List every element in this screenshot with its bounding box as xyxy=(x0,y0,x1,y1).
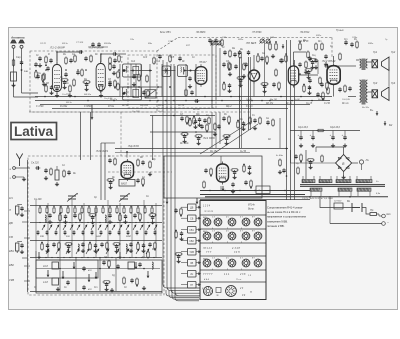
capacitor C12 IF xyxy=(132,74,135,79)
capacitor C41 xyxy=(203,118,206,123)
junction LV3 xyxy=(248,100,250,102)
wire T6 to Gr1 xyxy=(368,61,373,63)
svg-text:Rф: Rф xyxy=(152,158,156,161)
tuner LC cluster C108 xyxy=(137,243,140,251)
table row pin numbers xyxy=(212,217,255,230)
svg-text:Сф2 20,0: Сф2 20,0 xyxy=(330,126,341,129)
switch contact resistor R62 xyxy=(46,207,48,215)
wire КВ2 to bus xyxy=(181,240,188,242)
svg-text:Л1-2 6К9Р: Л1-2 6К9Р xyxy=(49,46,66,50)
ground af extra xyxy=(304,70,308,74)
svg-text:б: б xyxy=(227,228,228,230)
wire antenna column down xyxy=(27,160,29,292)
switch contact resistor R65 xyxy=(67,207,69,215)
capacitor C96 feed xyxy=(282,168,285,173)
tube L5 6A7 xyxy=(195,64,207,87)
capacitor C7 coupling xyxy=(78,50,83,53)
coil box Lg xyxy=(128,262,135,269)
resistor R63 xyxy=(137,159,140,167)
resistor R38 link xyxy=(117,83,120,91)
junction dots IF top xyxy=(132,70,134,72)
dashed box RF unit xyxy=(30,51,157,112)
tuner LC cluster C103 xyxy=(78,244,79,251)
wire L1 to L3 xyxy=(57,51,80,53)
capacitor C61 top row xyxy=(91,42,94,47)
capacitor C1 antenna xyxy=(20,60,23,65)
connector box СВ xyxy=(188,215,197,222)
coil L12 xyxy=(55,170,59,180)
capacitor C65 top xyxy=(234,64,237,69)
svg-text:3 3 П: 3 3 П xyxy=(234,252,240,254)
bold arrow contact 6 xyxy=(47,270,50,277)
wire lower tuner v3 xyxy=(75,258,77,291)
resistor R15 IF xyxy=(147,90,150,98)
capacitor C22 cluster xyxy=(222,62,225,67)
padder capacitor C97 xyxy=(136,230,139,235)
bold arrow tuner out 1 xyxy=(166,198,169,204)
padder capacitor C93 xyxy=(100,230,103,235)
svg-text:СВ: СВ xyxy=(190,218,194,221)
svg-text:Сം 3: Сം 3 xyxy=(246,105,253,108)
arrow ДВ to table xyxy=(196,206,201,208)
resistor R1 antenna xyxy=(12,59,15,67)
wire L12 cathode down xyxy=(333,87,335,97)
dashed connector RF to tuner xyxy=(120,112,122,156)
wire mid v5 xyxy=(215,112,217,148)
tuner LC cluster C79 xyxy=(59,214,62,222)
wire L3 plate bold xyxy=(100,54,102,64)
svg-text:R5 1к: R5 1к xyxy=(66,102,73,104)
wire RF down 1 xyxy=(80,112,82,160)
ground R7 xyxy=(68,93,72,97)
mains plug pin 2 xyxy=(382,222,386,226)
table row pin numbers xyxy=(212,231,255,244)
svg-text:УКВ: УКВ xyxy=(189,251,194,254)
switch contact resistor R72 xyxy=(116,207,118,215)
wire tuner row 3 xyxy=(30,240,162,242)
junction top 1 xyxy=(257,53,259,55)
wire T7 to Gr2 xyxy=(368,91,373,93)
ground grid divider xyxy=(271,54,275,58)
tuner LC cluster C106 xyxy=(113,243,121,246)
svg-text:Rс 3к: Rс 3к xyxy=(286,103,293,105)
resistor R58 between xyxy=(73,79,76,87)
ground lower tuner 2 xyxy=(110,288,114,292)
svg-text:П о н: П о н xyxy=(236,279,242,281)
capacitor C55 below L12 xyxy=(316,92,319,97)
wire mains top xyxy=(200,199,310,201)
bold arrow contact 7 xyxy=(73,262,76,269)
capacitor C33 top xyxy=(238,50,241,55)
wire lower tuner v5 xyxy=(115,258,117,291)
wire to tone xyxy=(329,65,340,67)
resistor R101 cluster xyxy=(103,281,111,284)
wire band stub 2 xyxy=(24,237,30,239)
wire lamp down xyxy=(361,164,363,170)
bridge rectifier V1 xyxy=(336,155,352,172)
dashed AF box right xyxy=(331,38,333,59)
wire heater 1 xyxy=(200,190,310,192)
capacitor C99 xyxy=(138,262,141,267)
wire L11 cathode xyxy=(220,186,222,191)
wire antenna 1 down xyxy=(13,48,15,97)
svg-text:Л9 6П14: Л9 6П14 xyxy=(299,31,310,34)
wire L12 plate up xyxy=(333,56,335,63)
resistor R70 cluster xyxy=(175,231,178,239)
svg-text:Сопротивления R41-4 указа-: Сопротивления R41-4 указа- xyxy=(267,206,303,210)
electrolytic capacitor C50 xyxy=(299,135,302,140)
capacitor C59 between xyxy=(76,70,79,75)
svg-text:8 9: 8 9 xyxy=(252,258,255,260)
wire mid v4 xyxy=(211,112,213,148)
junction lower tuner 1 xyxy=(59,268,61,270)
connector box УКВ xyxy=(188,249,197,256)
junction pillar 1 xyxy=(35,70,37,72)
svg-text:Сар: Сар xyxy=(16,56,21,59)
tuner LC cluster C84 xyxy=(133,213,136,218)
resistor R21 xyxy=(239,51,242,59)
wire terminal z xyxy=(15,176,24,178)
svg-text:Л3-4 6К9Р: Л3-4 6К9Р xyxy=(88,46,105,50)
tuned circuit ferrite 2 xyxy=(16,243,19,251)
capacitor C91 cluster xyxy=(204,168,207,173)
ground R65 xyxy=(148,172,152,176)
svg-text:7 7 7 7 7: 7 7 7 7 7 xyxy=(203,273,213,276)
tuner terminals xyxy=(13,167,16,170)
transformer winding W4 xyxy=(356,180,372,184)
IF transformer T2 xyxy=(162,66,171,77)
arrow AVC down xyxy=(282,44,285,49)
tube L10 6I1 xyxy=(121,159,133,181)
padder capacitor C91 xyxy=(82,230,85,235)
svg-text:Л1 Л2 Л3: Л1 Л2 Л3 xyxy=(203,211,214,213)
junction L10 xyxy=(126,151,128,153)
wire long vertical 5 xyxy=(264,40,266,96)
svg-text:Сз 50: Сз 50 xyxy=(324,103,331,105)
wire filter to transformer xyxy=(305,150,307,179)
wire to T6 xyxy=(356,59,360,61)
arrow СВ to table xyxy=(196,217,201,219)
svg-text:Сп 20: Сп 20 xyxy=(246,99,253,101)
wire IF lower xyxy=(120,86,162,88)
capacitor C49 af xyxy=(308,78,311,83)
wire terminal a xyxy=(15,167,30,169)
svg-text:6И1П: 6И1П xyxy=(121,182,127,185)
svg-text:в: в xyxy=(241,228,242,230)
switch contact resistor R73 xyxy=(123,207,125,215)
coil box L6-8 xyxy=(52,262,59,269)
trimmer capacitor T4 xyxy=(265,38,270,43)
ground R12 xyxy=(99,93,103,97)
dashed box IF unit xyxy=(128,55,216,108)
svg-text:+: + xyxy=(342,133,344,137)
ground R24 xyxy=(242,74,246,78)
wire feedback up xyxy=(317,60,319,74)
switch contact resistor R76 xyxy=(144,207,146,215)
capacitor C14 IF xyxy=(188,76,191,81)
capacitor C64 xyxy=(141,160,144,165)
arrow ГР to table xyxy=(196,284,201,286)
capacitor C98 padder xyxy=(82,285,85,290)
svg-text:Са 200: Са 200 xyxy=(34,199,42,201)
resistor R2 xyxy=(45,56,48,64)
tube L3 6K9 xyxy=(96,61,105,93)
resistor R102 xyxy=(123,277,126,285)
svg-text:Сп 30: Сп 30 xyxy=(178,105,185,107)
resistor R24 xyxy=(243,63,246,71)
svg-text:КВ2: КВ2 xyxy=(9,263,14,267)
wire distribution bold xyxy=(205,196,388,198)
ground C92 xyxy=(231,189,235,193)
table row pin numbers xyxy=(212,258,255,271)
svg-text:+: + xyxy=(310,133,312,137)
tuner LC cluster C81 xyxy=(89,214,97,217)
wire L9 plate right xyxy=(294,51,307,53)
junction top 2 xyxy=(285,53,287,55)
wire tuner feed 1 xyxy=(100,143,102,200)
wire mid v2 xyxy=(215,44,217,100)
svg-text:Л6 6Б8С: Л6 6Б8С xyxy=(195,31,206,34)
svg-text:Rк 56: Rк 56 xyxy=(122,105,129,107)
wire tone to T6 xyxy=(340,65,356,67)
svg-text:R 100к: R 100к xyxy=(60,106,68,108)
capacitor C104 xyxy=(116,264,119,269)
resistor R50 filter xyxy=(317,129,325,132)
capacitor C23 cluster xyxy=(260,56,263,61)
pilot lamp xyxy=(359,160,363,164)
svg-text:Сф 100: Сф 100 xyxy=(140,104,149,107)
capacitor C68 top xyxy=(324,54,327,59)
resistor R12 xyxy=(100,85,103,93)
resistor R13 IF xyxy=(138,74,141,82)
capacitor C5 cluster xyxy=(36,74,39,79)
wire tuner verticals xyxy=(35,200,37,258)
junction dist 1 xyxy=(309,196,311,198)
junction lower tuner 2 xyxy=(99,268,101,270)
wire ferrite 1 out xyxy=(22,221,28,223)
switch contact resistor R61 xyxy=(39,207,41,215)
resistor R42 xyxy=(208,117,211,125)
electrolytic capacitor C53 xyxy=(343,135,346,140)
resistor R11 cluster xyxy=(83,81,91,84)
wire feed down xyxy=(315,147,317,152)
electrolytic capacitor C51 xyxy=(311,135,314,140)
wire filter bus xyxy=(290,130,360,132)
tube L12 6P14 output xyxy=(327,63,340,87)
tuner LC cluster C109 xyxy=(148,242,151,247)
tuner LC cluster C82 xyxy=(105,215,106,222)
svg-text:4 5: 4 5 xyxy=(226,217,229,219)
ground arrow RF xyxy=(91,105,94,120)
svg-text:2. 3 4 П: 2. 3 4 П xyxy=(231,247,240,250)
ground mid strip xyxy=(253,126,257,130)
ground C12 xyxy=(132,82,136,86)
wire lower tuner v2 xyxy=(59,258,61,291)
svg-text:R32а: R32а xyxy=(368,43,374,45)
resistor R29 xyxy=(299,43,302,51)
wire IF 2 xyxy=(162,70,176,72)
resistor R55 pillar xyxy=(35,71,38,79)
wire tuner row 5 xyxy=(36,268,160,270)
svg-text:4 5: 4 5 xyxy=(226,258,229,260)
bold arrow contact 3 xyxy=(88,274,91,282)
resistor R37 link xyxy=(117,71,120,79)
switch contact resistor R71 xyxy=(109,207,111,215)
resistor R79 feed xyxy=(297,167,300,175)
switch contact arrows row 2 xyxy=(46,249,49,254)
svg-text:Гр1: Гр1 xyxy=(373,50,378,54)
wire tuner row 6 xyxy=(30,291,162,293)
resistor R10 xyxy=(118,55,121,63)
capacitor C11 top right xyxy=(112,52,117,55)
wire bus 2 xyxy=(35,100,330,102)
svg-text:Rф 2: Rф 2 xyxy=(226,105,232,108)
capacitor C56 xyxy=(348,86,351,91)
ground arrow L11 cathode xyxy=(222,186,225,191)
junction LV1 xyxy=(239,96,241,98)
dashed box tuner unit xyxy=(28,156,164,295)
padder capacitor C99 xyxy=(154,230,157,235)
switch contact resistor R75 xyxy=(137,207,139,215)
resistor R23 cluster xyxy=(237,77,245,80)
svg-text:2 3 8: 2 3 8 xyxy=(239,273,246,276)
svg-text:8 9: 8 9 xyxy=(252,231,255,233)
capacitor C4 xyxy=(69,58,72,63)
svg-text:6 7: 6 7 xyxy=(240,217,243,219)
resistor R36 link xyxy=(109,63,112,71)
svg-text:Сф1 20,0: Сф1 20,0 xyxy=(298,126,309,129)
capacitor C16 coupling xyxy=(194,99,199,102)
svg-text:Lativa: Lativa xyxy=(14,124,54,139)
svg-text:С 8800: С 8800 xyxy=(84,106,92,108)
capacitor C8 xyxy=(84,56,87,61)
resistor R22 cluster xyxy=(223,83,226,91)
wire mid v7 xyxy=(279,118,281,148)
IF transformer T4 xyxy=(122,87,141,100)
IF transformer T1 xyxy=(122,64,141,77)
resistor R44 cluster xyxy=(237,121,240,129)
resistor R8 xyxy=(90,55,93,63)
svg-text:С2 70: С2 70 xyxy=(40,43,47,45)
svg-text:R4 10к: R4 10к xyxy=(84,93,92,96)
valve socket 2 xyxy=(214,218,222,226)
terminal strip xyxy=(256,186,270,194)
svg-text:8 9: 8 9 xyxy=(252,217,255,219)
junction R27 xyxy=(275,41,277,43)
ground terminal z xyxy=(22,177,26,181)
capacitor C27 xyxy=(314,58,317,63)
ground lower tuner 3 xyxy=(142,286,146,290)
variable capacitor C80 gang 1 xyxy=(67,193,78,202)
tube L8 6E5 magic eye xyxy=(248,68,259,84)
resistor R75 mid cluster xyxy=(189,119,192,127)
capacitor C63 xyxy=(108,158,111,163)
capacitor C61 xyxy=(44,168,47,173)
wire L1 plate top xyxy=(56,52,58,61)
capacitor C34 top xyxy=(247,50,250,55)
arrow КВ2 to table xyxy=(196,240,201,242)
svg-text:4 4 4: 4 4 4 xyxy=(204,278,210,281)
capacitor C6 cathode xyxy=(55,86,58,91)
svg-text:Сп5: Сп5 xyxy=(170,57,175,59)
capacitor C103 xyxy=(66,280,69,285)
wire L10 plate xyxy=(126,152,128,158)
capacitor C65 cluster xyxy=(136,178,139,183)
resistor R33 cluster xyxy=(305,69,313,72)
resistor R27 xyxy=(275,43,278,51)
capacitor C93 cluster xyxy=(244,180,247,185)
capacitor C67 top xyxy=(280,58,283,63)
loudspeaker Gr1 xyxy=(372,57,389,71)
ground feed xyxy=(278,170,282,174)
svg-text:Гр3: Гр3 xyxy=(373,81,378,85)
resistor R30 xyxy=(315,43,318,51)
svg-text:Сь 50: Сь 50 xyxy=(240,151,247,153)
svg-text:Ся 220: Ся 220 xyxy=(31,162,39,165)
svg-text:Гр2: Гр2 xyxy=(391,50,396,54)
capacitor C62 xyxy=(67,170,70,175)
resistor R54 xyxy=(344,85,347,93)
wire long vertical 2 xyxy=(241,57,243,148)
padder capacitor C87 xyxy=(46,230,49,235)
wire tuner row 2 xyxy=(30,222,162,224)
valve socket 11 xyxy=(203,259,211,267)
switch contact resistor R70 xyxy=(102,207,104,215)
wire bridge feed left xyxy=(316,146,344,148)
svg-text:Rг 1М: Rг 1М xyxy=(193,109,200,111)
switch contact arrows row 1 xyxy=(42,225,45,230)
wire tuner row 1 xyxy=(30,205,162,207)
svg-text:измерения 9 ВВ.: измерения 9 ВВ. xyxy=(267,219,288,223)
svg-text:1 3: 1 3 xyxy=(212,231,215,233)
capacitor C10 cluster xyxy=(108,80,111,85)
wire vertical bus bundle centre xyxy=(163,60,200,288)
variable capacitor C81 gang 2 xyxy=(119,193,130,202)
junction lower tuner 3 xyxy=(143,268,145,270)
wire band stub 1 xyxy=(24,210,30,212)
resistor R47 xyxy=(272,119,275,127)
ground link xyxy=(112,71,116,75)
wire vertical bus pair right xyxy=(286,40,288,200)
junction bus pair xyxy=(286,175,288,177)
tube L1 6K9 xyxy=(52,62,61,94)
capacitor C39 af xyxy=(298,62,301,67)
svg-text:2 3: 2 3 xyxy=(239,288,244,290)
capacitor C20 xyxy=(223,50,226,55)
svg-text:С29а: С29а xyxy=(352,37,358,39)
svg-text:Антенна: Антенна xyxy=(10,36,25,40)
ground C2 xyxy=(38,63,42,67)
tuner LC cluster C80 xyxy=(73,213,76,218)
wire tuner row 4 xyxy=(30,257,162,259)
ground C50 xyxy=(299,144,303,148)
capacitor C25 cluster xyxy=(272,82,275,87)
wire C53 up xyxy=(344,131,346,136)
resistor R34 cluster xyxy=(303,85,306,93)
svg-text:R9 68к: R9 68к xyxy=(104,43,112,45)
wire bridge left feed xyxy=(291,162,336,164)
svg-text:6 7: 6 7 xyxy=(240,231,243,233)
resistor R5 cluster xyxy=(61,79,69,82)
svg-text:С24а: С24а xyxy=(270,36,276,39)
ground mid 3 xyxy=(213,132,217,136)
resistor R56 pillar xyxy=(43,73,46,81)
capacitor C21 xyxy=(233,52,236,57)
valve socket 14 xyxy=(242,259,250,267)
switch contact resistor R66 xyxy=(74,207,76,215)
capacitor C44 xyxy=(266,120,269,125)
svg-text:Сп3: Сп3 xyxy=(143,57,148,59)
